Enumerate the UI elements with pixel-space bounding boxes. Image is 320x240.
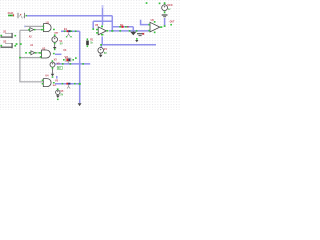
svg-text:OUT: OUT — [170, 22, 175, 24]
svg-text:5V: 5V — [58, 68, 61, 70]
svg-text:5V: 5V — [60, 43, 63, 45]
svg-text:5V: 5V — [104, 53, 107, 55]
svg-text:CLK: CLK — [8, 11, 14, 15]
svg-text:VCC: VCC — [167, 3, 173, 7]
svg-text:5V: 5V — [60, 95, 63, 97]
